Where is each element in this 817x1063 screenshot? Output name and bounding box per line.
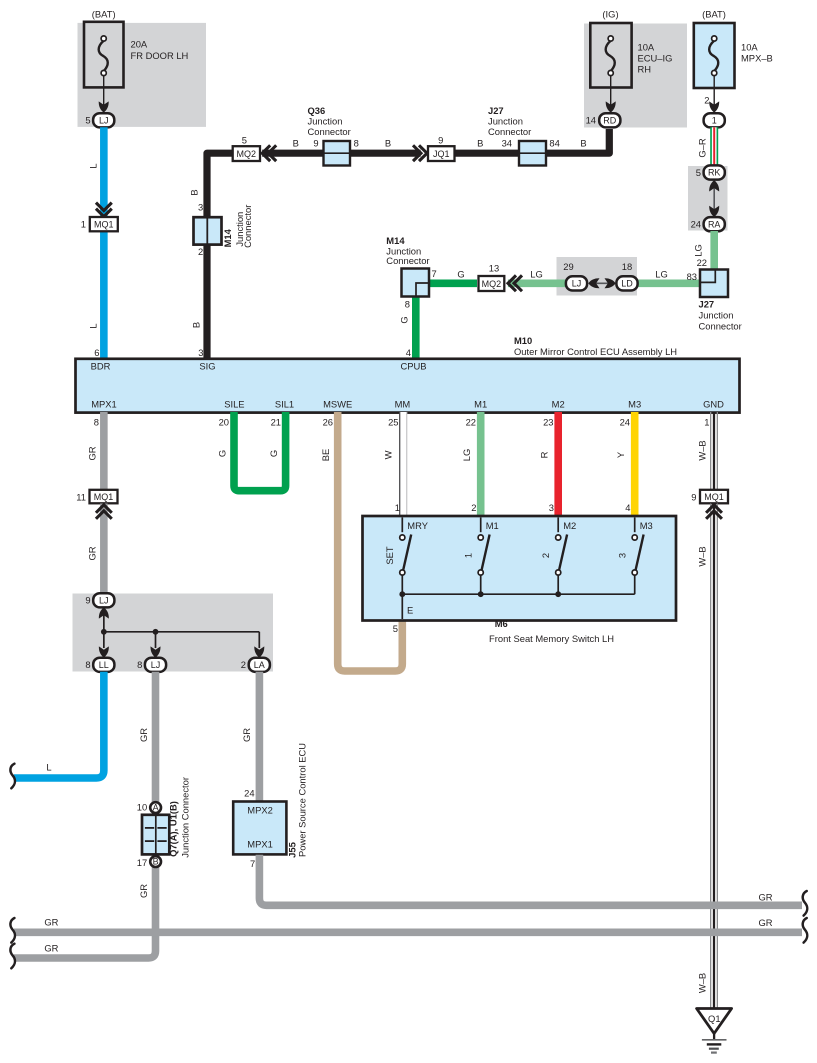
svg-text:GR: GR <box>87 446 98 460</box>
svg-text:CPUB: CPUB <box>400 360 426 371</box>
svg-text:MQ1: MQ1 <box>94 492 114 502</box>
M14 label (green) <box>386 235 429 266</box>
svg-text:B: B <box>293 137 299 148</box>
wire G SILE-SIL1 U-loop <box>234 412 286 491</box>
connector 29 LJ <box>563 261 587 291</box>
svg-text:25: 25 <box>388 417 398 428</box>
svg-text:MQ1: MQ1 <box>704 492 724 502</box>
wire GR from LA down to J55 <box>256 672 264 802</box>
Q7 label (rotated) <box>167 777 190 858</box>
svg-text:8: 8 <box>405 299 410 310</box>
svg-text:B: B <box>477 137 483 148</box>
svg-text:LJ: LJ <box>99 115 109 125</box>
wire fuse to connector 5 LJ <box>103 76 105 106</box>
svg-text:LG: LG <box>461 449 472 462</box>
svg-text:LL: LL <box>99 660 109 670</box>
svg-text:M14: M14 <box>222 228 233 247</box>
junction connector Q36 <box>324 141 351 166</box>
node E <box>401 594 403 619</box>
svg-text:2: 2 <box>198 246 203 257</box>
svg-text:J27: J27 <box>699 299 715 310</box>
wire G M14 down to CPUB pin 4 <box>412 295 420 359</box>
svg-text:MM: MM <box>395 398 411 409</box>
junction connector Q7(A) U1(B) <box>142 815 169 855</box>
svg-text:B: B <box>580 137 586 148</box>
pin numbers below M10 <box>94 417 710 428</box>
svg-text:5: 5 <box>393 623 398 634</box>
wire GR MPX1 down <box>100 412 108 490</box>
wire R M2 down to M6 <box>554 412 562 517</box>
svg-text:G: G <box>217 450 228 457</box>
svg-text:G: G <box>399 316 410 323</box>
svg-text:Power Source Control ECU: Power Source Control ECU <box>297 743 308 857</box>
svg-text:LG: LG <box>530 269 543 280</box>
chevron arrows into MQ1 <box>96 203 112 217</box>
svg-text:10A: 10A <box>638 42 655 53</box>
svg-text:23: 23 <box>543 417 553 428</box>
svg-text:Connector: Connector <box>308 126 351 137</box>
svg-text:G: G <box>457 269 464 280</box>
svg-text:84: 84 <box>549 137 559 148</box>
wire LG vertical to J27 <box>710 231 718 271</box>
connector 5 MQ2 <box>233 135 260 161</box>
J27 label (right) <box>699 299 742 332</box>
svg-text:GR: GR <box>241 728 252 742</box>
svg-text:22: 22 <box>697 257 707 268</box>
svg-text:FR DOOR LH: FR DOOR LH <box>131 50 189 61</box>
svg-text:G–R: G–R <box>697 138 708 158</box>
svg-text:MPX2: MPX2 <box>247 804 273 815</box>
svg-text:11: 11 <box>76 492 86 503</box>
svg-text:18: 18 <box>622 261 632 272</box>
continuation squiggle (GR right 1) <box>803 891 808 916</box>
connector 13 MQ2 <box>479 263 505 291</box>
switch M6 Front Seat Memory Switch LH <box>363 516 677 621</box>
svg-text:LJ: LJ <box>572 279 582 289</box>
svg-text:GR: GR <box>758 892 772 903</box>
svg-text:B: B <box>153 857 159 867</box>
connector 14 RD <box>586 113 621 127</box>
svg-text:5: 5 <box>696 167 701 178</box>
svg-text:MQ1: MQ1 <box>94 220 114 230</box>
svg-text:GR: GR <box>758 917 772 928</box>
connector 24 RA <box>691 217 725 231</box>
svg-text:SET: SET <box>384 546 395 565</box>
svg-text:MPX–B: MPX–B <box>741 53 773 64</box>
pin 10 A <box>137 802 161 813</box>
svg-text:2: 2 <box>471 502 476 513</box>
connector 5 RK <box>696 165 725 179</box>
svg-text:LJ: LJ <box>151 660 161 670</box>
svg-text:W–B: W–B <box>697 546 708 566</box>
svg-text:Outer Mirror Control ECU Assem: Outer Mirror Control ECU Assembly LH <box>514 346 677 357</box>
svg-text:J27: J27 <box>488 105 504 116</box>
M10 label <box>514 335 677 357</box>
svg-text:LG: LG <box>655 269 668 280</box>
wire B black: SIG pin 3 up, across top, to 14 RD <box>207 129 609 359</box>
svg-text:W: W <box>383 450 394 459</box>
svg-text:Junction Connector: Junction Connector <box>179 777 190 858</box>
connector 11 MQ1 <box>76 490 117 504</box>
arrow up into LJ <box>99 607 109 632</box>
svg-text:A: A <box>153 803 159 813</box>
svg-text:Q1: Q1 <box>708 1013 721 1024</box>
wire LG MQ2 to LJ <box>508 279 567 287</box>
wire GR from LJ down through Q7 to bottom bus <box>14 672 156 958</box>
wire GR from J55 pin 7 to right edge <box>259 855 802 906</box>
svg-text:LD: LD <box>621 279 633 289</box>
svg-text:RD: RD <box>603 115 616 125</box>
svg-text:1: 1 <box>712 115 717 125</box>
switch 3 <box>634 518 636 533</box>
svg-text:SIG: SIG <box>199 360 215 371</box>
wire GR bus full width <box>14 928 802 936</box>
svg-text:MQ2: MQ2 <box>482 279 502 289</box>
svg-text:RK: RK <box>708 168 721 178</box>
svg-text:E: E <box>407 604 413 615</box>
svg-text:9: 9 <box>438 135 443 146</box>
svg-text:Connector: Connector <box>386 255 429 266</box>
svg-text:9: 9 <box>691 492 696 503</box>
junction connector M14 (on black wire) <box>194 217 222 244</box>
wire BE MSWE down and to M6 pin 5 <box>338 412 403 671</box>
svg-text:M10: M10 <box>514 335 532 346</box>
svg-text:M2: M2 <box>552 398 565 409</box>
svg-text:W–B: W–B <box>697 440 708 460</box>
svg-text:MPX1: MPX1 <box>247 838 273 849</box>
svg-text:24: 24 <box>691 219 701 230</box>
continuation squiggle (blue wire) <box>10 764 15 789</box>
ECU J55 Power Source Control ECU <box>233 802 286 855</box>
svg-text:GR: GR <box>138 728 149 742</box>
svg-text:MSWE: MSWE <box>323 398 352 409</box>
svg-text:22: 22 <box>466 417 476 428</box>
svg-text:34: 34 <box>502 137 512 148</box>
svg-text:2: 2 <box>241 659 246 670</box>
arrows between RK and RA <box>709 180 719 217</box>
svg-text:8: 8 <box>94 417 99 428</box>
wire Y M3 down to M6 <box>631 412 639 517</box>
svg-text:26: 26 <box>323 417 333 428</box>
continuation squiggle (GR bus right) <box>803 918 808 943</box>
wire G M14 to MQ2 <box>428 279 477 287</box>
svg-text:Connector: Connector <box>699 321 742 332</box>
svg-text:ECU–IG: ECU–IG <box>638 53 673 64</box>
svg-text:M3: M3 <box>640 520 653 531</box>
svg-text:1: 1 <box>395 502 400 513</box>
arrows into LL, LJ, LA <box>99 646 109 657</box>
svg-text:GR: GR <box>44 942 58 953</box>
switch common line <box>402 593 634 595</box>
connector 8 LL <box>85 658 114 672</box>
svg-text:3: 3 <box>549 502 554 513</box>
svg-text:Y: Y <box>615 451 626 458</box>
connector 1 MQ1 <box>81 217 118 231</box>
wire W MM down to M6 <box>400 412 407 517</box>
pin 17 B <box>137 856 161 868</box>
connector 8 LJ <box>137 658 166 672</box>
J27 label <box>488 105 531 137</box>
svg-text:RH: RH <box>638 64 652 75</box>
continuation squiggle (GR bus left) <box>10 918 15 943</box>
svg-text:2: 2 <box>704 94 709 105</box>
wire W-B down to ground <box>711 504 718 1010</box>
svg-text:3: 3 <box>198 347 203 358</box>
connector 18 LD <box>616 261 637 291</box>
svg-text:1: 1 <box>704 417 709 428</box>
svg-text:(IG): (IG) <box>602 9 618 20</box>
svg-text:24: 24 <box>244 787 254 798</box>
junction connector J27 (right) <box>700 270 728 298</box>
chevron arrows into MQ2 (13) <box>508 275 522 291</box>
internal junction wiring <box>101 629 259 648</box>
ground Q1 <box>697 1009 732 1041</box>
svg-text:Q7(A), U1(B): Q7(A), U1(B) <box>167 801 178 857</box>
svg-text:13: 13 <box>489 263 499 274</box>
svg-text:MPX1: MPX1 <box>91 398 117 409</box>
svg-text:4: 4 <box>406 347 411 358</box>
wire L blue vertical to M10 pin 6 BDR <box>100 127 108 359</box>
wire fuse to connector 1 <box>713 76 715 106</box>
svg-text:1: 1 <box>462 553 473 558</box>
svg-text:BDR: BDR <box>91 360 111 371</box>
svg-text:LJ: LJ <box>99 595 109 605</box>
fuse 20A FR DOOR LH <box>84 22 188 88</box>
svg-text:LG: LG <box>693 244 704 257</box>
svg-text:14: 14 <box>586 115 596 126</box>
gray background relay block <box>73 594 274 672</box>
svg-text:6: 6 <box>94 347 99 358</box>
connector 2 LA <box>241 658 270 672</box>
wire W-B GND down <box>711 412 718 490</box>
svg-text:21: 21 <box>271 417 281 428</box>
svg-text:Connector: Connector <box>488 126 531 137</box>
svg-text:M6: M6 <box>495 618 508 629</box>
svg-text:B: B <box>189 189 200 195</box>
svg-text:GR: GR <box>44 917 58 928</box>
fuse block gray background ECU-IG <box>584 24 687 128</box>
junction connector M14 (green) <box>402 269 430 297</box>
svg-text:9: 9 <box>85 595 90 606</box>
svg-text:9: 9 <box>313 137 318 148</box>
connector 1 <box>704 113 725 127</box>
wire GR MQ1 to 9 LJ <box>100 504 108 595</box>
svg-text:B: B <box>385 137 391 148</box>
ground hatch <box>702 1040 727 1053</box>
svg-text:5: 5 <box>242 135 247 146</box>
svg-text:4: 4 <box>625 502 630 513</box>
wire fuse to connector 14 RD <box>610 76 612 106</box>
chevron arrows into MQ2 (left) <box>262 145 276 161</box>
svg-text:5: 5 <box>85 115 90 126</box>
J55 label (rotated) <box>286 743 307 858</box>
arrows between LJ and LD <box>588 278 615 288</box>
wire L blue from LL to left edge <box>14 672 104 778</box>
svg-text:GR: GR <box>87 546 98 560</box>
svg-text:M2: M2 <box>563 520 576 531</box>
svg-text:B: B <box>191 322 202 328</box>
connector 5 LJ <box>85 113 114 127</box>
connector 9 JQ1 <box>428 135 455 161</box>
svg-text:7: 7 <box>432 268 437 279</box>
svg-text:M14: M14 <box>386 235 405 246</box>
fuse 10A ECU-IG RH <box>590 23 672 88</box>
svg-text:(BAT): (BAT) <box>702 9 726 20</box>
svg-text:10: 10 <box>137 802 147 813</box>
svg-text:7: 7 <box>250 858 255 869</box>
svg-text:Front Seat Memory Switch LH: Front Seat Memory Switch LH <box>489 633 614 644</box>
svg-text:10A: 10A <box>741 42 758 53</box>
ECU M10 Outer Mirror Control ECU Assembly LH <box>76 359 740 413</box>
svg-text:MRY: MRY <box>407 520 428 531</box>
svg-text:29: 29 <box>563 261 573 272</box>
svg-text:W–B: W–B <box>697 973 708 993</box>
svg-text:L: L <box>88 323 99 328</box>
svg-text:G: G <box>268 450 279 457</box>
wire LG horizontal LD to J27 <box>637 279 700 287</box>
pin numbers above M6 <box>395 502 631 513</box>
gray background LJ/LD <box>557 257 638 296</box>
svg-text:BE: BE <box>320 449 331 462</box>
fuse block gray background FR DOOR LH <box>78 23 207 127</box>
svg-text:SILE: SILE <box>224 398 244 409</box>
svg-text:RA: RA <box>708 219 721 229</box>
switch 1 <box>480 518 482 533</box>
svg-text:M3: M3 <box>628 398 641 409</box>
svg-text:M1: M1 <box>486 520 499 531</box>
switch SET <box>401 518 403 533</box>
svg-text:8: 8 <box>85 659 90 670</box>
junction connector J27 (top) <box>519 141 546 166</box>
svg-text:20: 20 <box>219 417 229 428</box>
wire G-R <box>710 127 718 166</box>
svg-text:MQ2: MQ2 <box>237 149 257 159</box>
svg-text:3: 3 <box>198 202 203 213</box>
svg-text:3: 3 <box>616 553 627 558</box>
M14 junction connector label (rotated) <box>222 205 253 248</box>
svg-text:JQ1: JQ1 <box>433 149 450 159</box>
chevron arrows into JQ1 (right) <box>413 145 427 161</box>
continuation squiggle (GR bottom-left bus) <box>10 944 15 969</box>
switch 2 <box>557 518 559 533</box>
svg-text:8: 8 <box>354 137 359 148</box>
svg-text:24: 24 <box>620 417 630 428</box>
gray background RK/RA <box>688 166 728 231</box>
svg-text:Connector: Connector <box>242 205 253 248</box>
svg-text:17: 17 <box>137 857 147 868</box>
svg-text:Junction: Junction <box>699 310 734 321</box>
svg-text:83: 83 <box>687 271 697 282</box>
svg-text:R: R <box>539 451 550 458</box>
svg-text:(BAT): (BAT) <box>92 9 116 20</box>
connector 9 MQ1 (right) <box>691 490 728 504</box>
svg-text:20A: 20A <box>131 39 148 50</box>
svg-text:L: L <box>88 163 99 168</box>
connector 9 LJ <box>85 593 114 607</box>
chevron arrows out of MQ1 (up) <box>96 505 112 519</box>
svg-text:Q36: Q36 <box>308 105 326 116</box>
svg-text:LA: LA <box>254 660 265 670</box>
svg-text:8: 8 <box>137 659 142 670</box>
svg-text:1: 1 <box>81 219 86 230</box>
svg-text:2: 2 <box>540 553 551 558</box>
svg-text:GND: GND <box>703 398 724 409</box>
svg-text:SIL1: SIL1 <box>275 398 294 409</box>
Q36 label <box>308 105 351 137</box>
chevron arrows out of MQ1 (up, right) <box>706 505 722 519</box>
svg-text:M1: M1 <box>474 398 487 409</box>
svg-text:GR: GR <box>138 884 149 898</box>
svg-text:L: L <box>46 762 51 773</box>
M6 label <box>489 618 614 644</box>
wire LG M1 down to M6 <box>477 412 485 517</box>
